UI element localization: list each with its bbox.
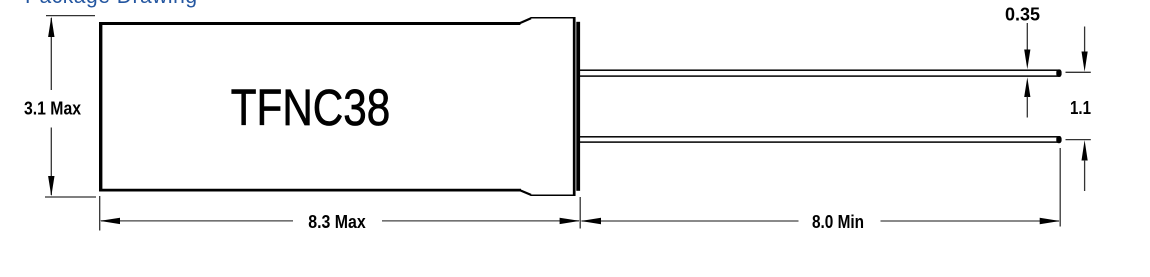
svg-text:3.1 Max: 3.1 Max [24,98,82,119]
svg-text:TFNC38: TFNC38 [231,79,391,136]
svg-text:8.3 Max: 8.3 Max [308,211,366,232]
svg-text:8.0 Min: 8.0 Min [812,211,864,232]
svg-text:0.35: 0.35 [1005,3,1040,24]
svg-text:1.1: 1.1 [1070,97,1091,118]
svg-text:Package Drawing: Package Drawing [25,0,197,8]
